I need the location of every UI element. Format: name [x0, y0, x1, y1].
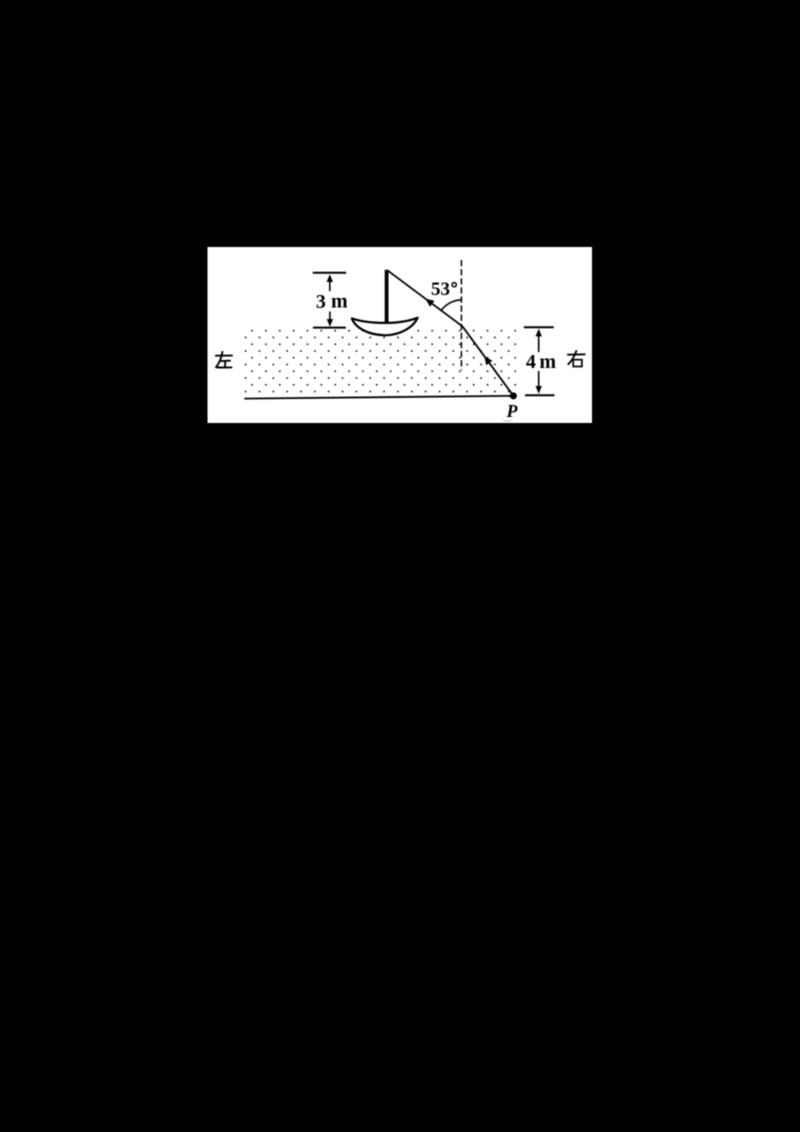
4m label	[526, 351, 536, 373]
53 degree label	[431, 279, 450, 300]
4m up arrow	[538, 333, 540, 352]
white panel	[208, 247, 593, 423]
water dotted region	[244, 327, 517, 398]
right label (you character)	[568, 351, 585, 367]
4m bottom tick	[525, 394, 554, 396]
svg-text:4: 4	[526, 351, 536, 373]
4m top tick	[524, 326, 554, 328]
P point	[510, 392, 517, 399]
dashed normal line	[460, 260, 462, 370]
53 degree arc	[441, 300, 461, 311]
svg-text:m: m	[539, 351, 556, 373]
P label	[506, 401, 519, 421]
light ray with bend at water surface	[387, 270, 513, 396]
3m up arrow	[329, 279, 331, 291]
4m down arrow	[538, 371, 540, 388]
refracted ray arrowhead	[484, 356, 492, 365]
mast	[385, 270, 389, 324]
svg-text:P: P	[506, 401, 519, 421]
boat hull	[352, 318, 418, 336]
faint underline below P	[503, 420, 512, 422]
3m label	[316, 291, 326, 313]
3m top tick	[313, 272, 346, 274]
ground line	[244, 396, 513, 399]
svg-text:m: m	[331, 291, 348, 313]
svg-text:53: 53	[431, 279, 450, 300]
svg-text:3: 3	[316, 291, 326, 313]
left label (zuo character)	[216, 352, 232, 368]
3m down arrow	[329, 312, 331, 322]
incident ray arrowhead	[425, 299, 434, 307]
3m bottom tick	[313, 327, 346, 329]
